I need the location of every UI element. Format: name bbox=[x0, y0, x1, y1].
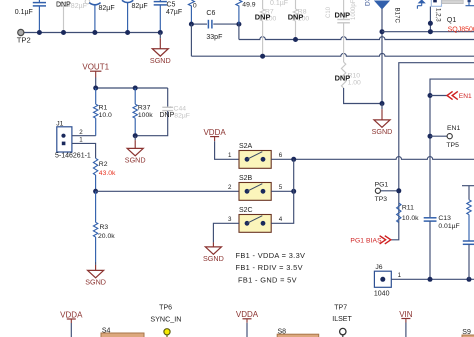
transistor Q1 partial symbols top right bbox=[419, 0, 425, 3]
svg-text:0: 0 bbox=[193, 3, 197, 10]
svg-text:SGND: SGND bbox=[85, 278, 106, 287]
ground SGND under D3 bbox=[381, 104, 383, 110]
capacitor 82uF polarized bbox=[122, 0, 133, 2]
svg-text:0.1µF: 0.1µF bbox=[270, 0, 288, 7]
test point TP3 PG1 bbox=[375, 188, 380, 193]
svg-text:5-146261-1: 5-146261-1 bbox=[55, 153, 91, 160]
svg-text:SGND: SGND bbox=[150, 56, 171, 65]
svg-text:47µF: 47µF bbox=[166, 9, 182, 16]
svg-text:82µF: 82µF bbox=[132, 3, 148, 10]
wire R10 bottom to D3 node bbox=[344, 88, 382, 104]
svg-text:ILSET: ILSET bbox=[332, 316, 352, 323]
resistor R7 DNP grey bbox=[262, 0, 264, 9]
svg-text:Q1: Q1 bbox=[447, 17, 456, 24]
svg-text:C6: C6 bbox=[206, 10, 215, 17]
capacitor C44 DNP grey branch bbox=[167, 88, 169, 107]
svg-text:10.0: 10.0 bbox=[99, 112, 112, 119]
svg-text:VDDA: VDDA bbox=[203, 128, 226, 137]
resistor right edge (cut) bbox=[462, 186, 474, 200]
wire R2 bottom junction bbox=[95, 175, 97, 191]
ground SGND under R37 bbox=[134, 136, 136, 140]
svg-text:EN1: EN1 bbox=[459, 93, 472, 100]
wire D3 cathode down bbox=[381, 9, 383, 104]
connector J6 1040 bbox=[374, 271, 391, 287]
svg-text:20.0k: 20.0k bbox=[98, 233, 115, 240]
wire main top bus bbox=[24, 32, 160, 34]
switch S2C bbox=[239, 215, 271, 233]
svg-text:J6: J6 bbox=[375, 264, 382, 271]
svg-text:33pF: 33pF bbox=[206, 34, 222, 41]
resistor R37 100k bbox=[134, 88, 136, 104]
svg-text:2: 2 bbox=[79, 129, 83, 136]
svg-text:0.1µF: 0.1µF bbox=[15, 9, 33, 16]
svg-text:TP5: TP5 bbox=[446, 142, 459, 149]
switch S2B bbox=[239, 183, 271, 201]
test point TP5 EN1 bbox=[428, 134, 433, 139]
svg-text:5: 5 bbox=[279, 184, 283, 191]
svg-text:0.01µF: 0.01µF bbox=[438, 223, 459, 230]
svg-text:4: 4 bbox=[279, 216, 283, 223]
wire S2A pin6 with hops to right edge bbox=[271, 157, 474, 160]
svg-text:FB1 - RDIV = 3.5V: FB1 - RDIV = 3.5V bbox=[236, 263, 303, 272]
svg-text:VIN: VIN bbox=[399, 310, 413, 319]
svg-text:1: 1 bbox=[398, 272, 402, 279]
svg-text:10.0k: 10.0k bbox=[402, 215, 419, 222]
wire to S2B pin2 bbox=[96, 190, 239, 192]
resistor R11 10.0k bbox=[397, 203, 401, 223]
resistor 49.9 (cut at top) bbox=[236, 0, 242, 24]
wire corner x399 down (PG1 net) bbox=[391, 63, 474, 240]
capacitor right edge (cut) bbox=[463, 240, 474, 242]
diode D3 B17C bbox=[375, 1, 389, 9]
svg-text:VOUT1: VOUT1 bbox=[82, 62, 109, 71]
svg-text:FB1 - GND = 5V: FB1 - GND = 5V bbox=[238, 276, 297, 285]
resistor 0 ohm (cut at top) bbox=[188, 0, 194, 24]
capacitor C13 0.01uF bbox=[424, 217, 437, 219]
svg-text:SGND: SGND bbox=[372, 127, 393, 136]
capacitor C5 47uF bbox=[159, 0, 161, 1]
wire Q1 source node y32 bbox=[382, 31, 474, 33]
svg-text:82µF: 82µF bbox=[99, 5, 115, 12]
resistor R2 43.0k bbox=[93, 158, 97, 175]
svg-text:C13: C13 bbox=[438, 215, 451, 222]
svg-text:1: 1 bbox=[79, 136, 83, 143]
wire S2C pin4 up to pin5/pin6 bbox=[271, 159, 294, 223]
svg-text:C5: C5 bbox=[167, 1, 176, 8]
switch S2A bbox=[239, 151, 271, 169]
svg-text:82µF: 82µF bbox=[174, 113, 190, 120]
capacitor 0.1uF bbox=[38, 0, 40, 2]
svg-text:DNP: DNP bbox=[160, 112, 175, 119]
svg-text:B17C: B17C bbox=[394, 8, 401, 24]
ground SGND under C5 bbox=[159, 33, 161, 39]
wire bus y39 with hops bbox=[239, 37, 474, 40]
capacitor C11 82uF polarized bbox=[85, 0, 90, 4]
svg-text:PG1 BIAS: PG1 BIAS bbox=[350, 238, 382, 245]
wire bus y56 with hops bbox=[191, 53, 474, 56]
svg-text:PG1: PG1 bbox=[375, 181, 389, 188]
svg-text:1040: 1040 bbox=[374, 291, 390, 298]
svg-text:C10: C10 bbox=[326, 6, 332, 18]
wire S2B pin5 bbox=[271, 190, 294, 192]
svg-text:S2C: S2C bbox=[239, 207, 253, 214]
svg-text:TP6: TP6 bbox=[159, 304, 172, 311]
wire C6 right node down to bus3 bbox=[238, 24, 240, 39]
ground SGND under S2C bbox=[212, 240, 214, 242]
svg-text:1,2,3: 1,2,3 bbox=[434, 8, 441, 22]
svg-text:J1: J1 bbox=[56, 120, 63, 127]
svg-text:49.9: 49.9 bbox=[242, 1, 255, 8]
svg-text:DNP: DNP bbox=[255, 13, 271, 22]
svg-text:VDDA: VDDA bbox=[60, 310, 83, 319]
wire J1 pin1 to R2 bbox=[72, 143, 96, 158]
svg-text:S2B: S2B bbox=[239, 175, 253, 182]
svg-text:DNP: DNP bbox=[335, 11, 351, 20]
connector J1 5-146261-1 bbox=[57, 127, 72, 152]
resistor R1 10.0 bbox=[95, 88, 97, 104]
resistor R8 DNP grey bbox=[295, 0, 297, 9]
wire J1 pin2 to R1 bbox=[72, 135, 96, 137]
svg-text:TP2: TP2 bbox=[17, 36, 31, 45]
wire J6 pin1 to right edge bbox=[391, 278, 474, 280]
svg-text:SGND: SGND bbox=[125, 156, 146, 165]
svg-text:FB1 - VDDA = 3.3V: FB1 - VDDA = 3.3V bbox=[236, 251, 306, 260]
svg-text:SQJ8500: SQJ8500 bbox=[448, 26, 474, 33]
resistor R3 20.0k bbox=[95, 191, 97, 222]
ground SGND under R3 bbox=[95, 262, 97, 265]
svg-text:R3: R3 bbox=[100, 224, 109, 231]
resistor R10 DNP grey bbox=[341, 62, 345, 88]
svg-text:1000pF: 1000pF bbox=[351, 0, 357, 20]
test point TP2 bbox=[18, 29, 24, 35]
svg-text:TP3: TP3 bbox=[375, 196, 388, 203]
net arrow EN1 bbox=[428, 93, 433, 98]
svg-text:1: 1 bbox=[228, 152, 232, 159]
svg-text:43.0k: 43.0k bbox=[99, 170, 116, 177]
svg-text:100k: 100k bbox=[138, 112, 153, 119]
svg-text:82µF: 82µF bbox=[71, 3, 87, 10]
svg-text:R2: R2 bbox=[99, 161, 108, 168]
svg-text:TP7: TP7 bbox=[334, 304, 347, 311]
svg-text:DNP: DNP bbox=[56, 2, 71, 9]
svg-text:6: 6 bbox=[279, 152, 283, 159]
wire Q1 pins 1,2,3 down to node bbox=[429, 7, 431, 32]
wire VOUT1 bus bbox=[96, 87, 168, 89]
wire S2C pin3 to SGND bbox=[213, 223, 239, 240]
svg-text:R37: R37 bbox=[138, 104, 151, 111]
capacitor DNP 82uF (grey) bbox=[57, 2, 70, 4]
svg-text:2: 2 bbox=[228, 184, 232, 191]
wire corner x430 down (EN net) bbox=[430, 79, 474, 217]
svg-text:DNP: DNP bbox=[335, 74, 351, 83]
svg-text:S2A: S2A bbox=[239, 143, 253, 150]
wire C6 left node down to bus2 bbox=[190, 24, 192, 56]
svg-text:DNP: DNP bbox=[288, 13, 304, 22]
svg-text:VDDA: VDDA bbox=[236, 310, 259, 319]
svg-text:SYNC_IN: SYNC_IN bbox=[150, 314, 181, 323]
svg-text:3: 3 bbox=[228, 216, 232, 223]
svg-text:SGND: SGND bbox=[203, 254, 224, 263]
svg-text:R11: R11 bbox=[402, 204, 414, 211]
svg-text:D3: D3 bbox=[365, 0, 372, 6]
net arrow PG1 BIAS bbox=[380, 236, 391, 244]
svg-text:EN1: EN1 bbox=[447, 125, 460, 132]
svg-text:R1: R1 bbox=[99, 104, 108, 111]
